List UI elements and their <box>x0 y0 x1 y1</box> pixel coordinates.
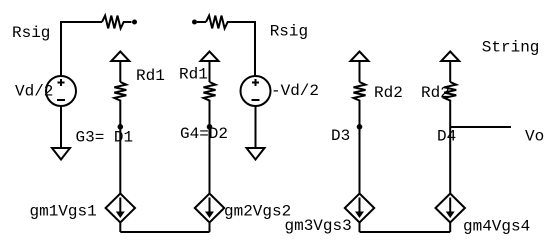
svg-text:String: String <box>482 38 540 56</box>
svg-text:Rsig: Rsig <box>12 24 50 42</box>
svg-text:G3= D1: G3= D1 <box>76 128 134 146</box>
svg-text:G4=D2: G4=D2 <box>180 125 228 143</box>
svg-text:-Vd/2: -Vd/2 <box>271 82 319 100</box>
svg-text:Rd2: Rd2 <box>374 84 403 102</box>
svg-text:D3: D3 <box>331 127 350 145</box>
svg-text:gm3Vgs3: gm3Vgs3 <box>285 217 352 235</box>
svg-text:gm2Vgs2: gm2Vgs2 <box>224 203 291 221</box>
svg-text:Vd/2: Vd/2 <box>15 83 53 101</box>
svg-text:D4: D4 <box>437 128 456 146</box>
svg-text:Vo: Vo <box>525 128 544 146</box>
svg-text:Rd1: Rd1 <box>179 66 208 84</box>
svg-text:gm4Vgs4: gm4Vgs4 <box>463 218 530 236</box>
svg-text:Rd2: Rd2 <box>421 84 450 102</box>
svg-text:Rd1: Rd1 <box>136 67 165 85</box>
svg-text:Rsig: Rsig <box>270 23 308 41</box>
svg-text:gm1Vgs1: gm1Vgs1 <box>30 203 97 221</box>
